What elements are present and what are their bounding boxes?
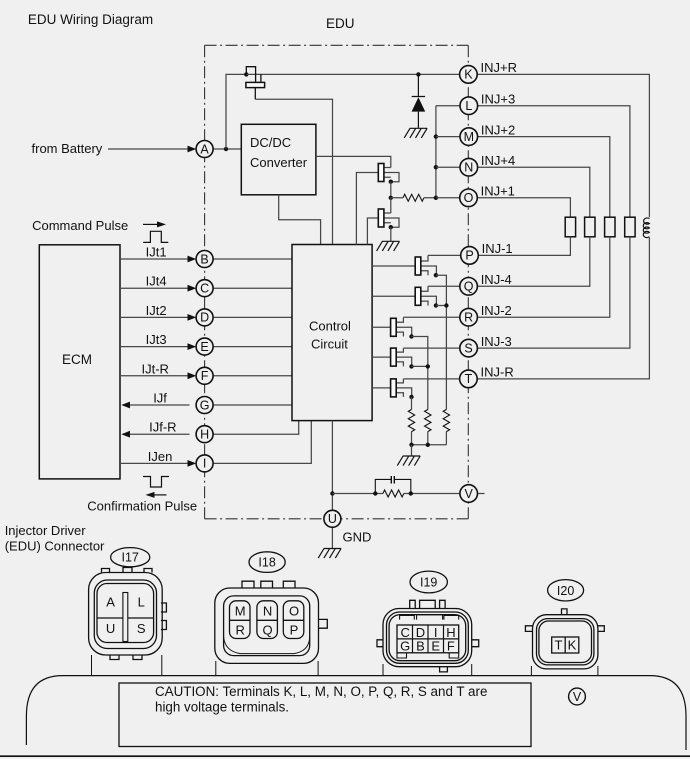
wire: inductor to T row [477, 237, 649, 379]
I18 legs [216, 661, 318, 676]
wire: junction up to fusible link [226, 74, 246, 149]
wire row D [120, 316, 292, 318]
I19 body outline [383, 609, 472, 667]
resistor (V feedback) [383, 490, 404, 497]
terminal T [460, 370, 478, 388]
I18 top tabs [242, 581, 327, 628]
I18 inner shell [224, 596, 310, 656]
wire: N row to injector 2 [478, 167, 590, 217]
terminal A [196, 141, 213, 158]
svg-text:INJ+4: INJ+4 [481, 153, 515, 168]
svg-text:R: R [236, 623, 245, 638]
svg-text:P: P [290, 623, 299, 638]
svg-text:EDU: EDU [326, 16, 355, 31]
svg-text:A: A [106, 595, 115, 610]
wire row C [120, 287, 292, 289]
svg-text:U: U [328, 512, 337, 526]
svg-text:K: K [464, 68, 473, 82]
transistor Q1 (high side) [356, 164, 399, 245]
svg-text:Control: Control [309, 319, 351, 334]
arrow row C [188, 285, 197, 292]
svg-text:GND: GND [343, 530, 372, 545]
svg-text:ECM: ECM [62, 352, 92, 367]
junction bus M [434, 134, 438, 138]
wire: DC/DC output right to transistor Q1 drain [316, 156, 391, 167]
svg-text:B: B [416, 639, 425, 654]
transistor Q3 (INJ-1 low side) [372, 255, 438, 277]
terminal K [460, 66, 478, 84]
I20 oval label [548, 580, 584, 601]
svg-text:H: H [200, 428, 209, 442]
I18 body outline [215, 588, 319, 663]
arrow row E [188, 343, 197, 350]
terminal N [460, 158, 478, 176]
resistor R3 (sense middle) [425, 410, 431, 432]
junction Q6 to middle line [426, 364, 430, 368]
I20 cavity [539, 621, 592, 663]
arrow into node A [188, 146, 197, 153]
svg-text:T: T [555, 638, 563, 653]
junction on U line [330, 491, 334, 495]
INJ labels [481, 60, 517, 380]
I20 top pin [562, 609, 568, 615]
arrow row F [188, 372, 197, 379]
junction Q4 to bus [444, 303, 448, 307]
svg-text:E: E [431, 639, 440, 654]
svg-text:T: T [465, 372, 473, 386]
I19 cavity [389, 615, 466, 661]
terminal H [196, 426, 213, 443]
wire: injector 1 to P row [478, 237, 570, 256]
wire: node A to DC/DC converter [213, 148, 241, 150]
I19 side and bottom tabs [377, 640, 479, 672]
terminal M [460, 128, 478, 146]
pulse glyph (command) [143, 231, 168, 242]
wire: Q row to Q4 drain [428, 285, 460, 287]
ground (U) [318, 549, 341, 559]
I17 terminal letters [106, 595, 146, 637]
terminal E [196, 338, 213, 355]
DC/DC converter U1 [241, 124, 316, 195]
svg-text:M: M [235, 604, 246, 619]
svg-text:(EDU) Connector: (EDU) Connector [5, 539, 105, 554]
svg-text:S: S [137, 621, 146, 636]
connector I17 [111, 548, 150, 567]
injector solenoid 2 [585, 217, 595, 237]
I19 top tabs [410, 600, 445, 608]
terminal V [460, 485, 478, 503]
I17 legs [92, 655, 162, 675]
I17 body outline [102, 568, 167, 660]
arrow row H (into ECM) [121, 431, 130, 438]
I19 inner shell [387, 612, 469, 663]
stub right of V [478, 493, 485, 495]
svg-text:K: K [568, 638, 577, 653]
terminal S [460, 339, 478, 357]
arrow row G (into ECM) [121, 402, 130, 409]
inductor L1 [643, 218, 649, 238]
connector I20 [548, 580, 584, 601]
svg-text:B: B [200, 252, 208, 266]
I19 bottom notches [397, 653, 459, 658]
junction at fusible link [244, 72, 248, 76]
junction bus O [434, 196, 438, 200]
svg-text:IJf-R: IJf-R [149, 420, 176, 435]
I18 cavity lip [224, 637, 310, 654]
wire: Q6 source joins middle resistor line [412, 365, 428, 367]
svg-text:IJt1: IJt1 [146, 245, 167, 260]
wire row B [120, 258, 292, 260]
terminal P [461, 247, 479, 265]
transistor Q6 (INJ-3 low side) [372, 348, 414, 368]
svg-text:INJ-1: INJ-1 [482, 241, 513, 256]
connector I19 [410, 571, 447, 593]
svg-text:IJt2: IJt2 [146, 303, 167, 318]
svg-text:IJf: IJf [153, 391, 167, 406]
terminal Q [460, 278, 478, 296]
svg-text:I: I [203, 457, 206, 471]
terminal L [460, 97, 478, 115]
terminal I [196, 455, 213, 472]
arrow row I [188, 460, 197, 467]
svg-text:F: F [447, 639, 455, 654]
junction on +B line at diode [416, 72, 420, 76]
transistor Q7 (INJ-R low side) [372, 379, 414, 399]
fusible link [246, 67, 265, 100]
svg-text:L: L [465, 99, 472, 113]
terminal circles left column [196, 141, 477, 528]
EDU case panel [26, 676, 686, 750]
svg-text:IJen: IJen [148, 449, 173, 464]
svg-text:A: A [200, 142, 209, 156]
injector solenoid 3 [605, 217, 615, 237]
wire: Q4 source joins sense line [436, 305, 447, 307]
svg-text:high voltage terminals.: high voltage terminals. [155, 700, 289, 715]
wire: junction to RC and terminal V [332, 493, 460, 495]
EDU boundary (dash-dot box) [205, 45, 469, 519]
terminal B [196, 251, 213, 268]
svg-text:IJt3: IJt3 [146, 332, 167, 347]
wire: Q5 source to middle sense resistor [412, 337, 428, 410]
svg-text:P: P [465, 249, 473, 263]
I19 top slots [400, 615, 459, 620]
junction sense common 2 [426, 443, 430, 447]
svg-text:Converter: Converter [250, 155, 308, 170]
wire: injector 2 to Q row [478, 237, 590, 286]
svg-text:N: N [464, 161, 473, 175]
I20 body outline [533, 615, 598, 669]
terminal U [324, 510, 341, 527]
svg-text:IJt-R: IJt-R [142, 361, 169, 376]
svg-text:V: V [465, 487, 474, 501]
wire: T row to Q7 drain [403, 378, 459, 380]
capacitor C1 (parallel) [375, 476, 411, 494]
I17 divider vertical bar [123, 593, 128, 642]
svg-text:I20: I20 [557, 584, 574, 598]
terminal D [196, 309, 213, 326]
svg-text:Confirmation Pulse: Confirmation Pulse [87, 499, 197, 514]
svg-text:INJ+1: INJ+1 [481, 184, 515, 199]
I20 terminal box [552, 637, 579, 653]
svg-text:Q: Q [464, 280, 474, 294]
svg-text:CAUTION: Terminals K, L, M, N,: CAUTION: Terminals K, L, M, N, O, P, Q, … [155, 684, 487, 699]
svg-text:from Battery: from Battery [32, 141, 103, 156]
ground (diode) [404, 128, 427, 138]
svg-text:G: G [200, 398, 210, 412]
svg-text:Injector Driver: Injector Driver [5, 523, 87, 538]
wire: injector 4 to S row [478, 237, 630, 348]
svg-text:S: S [464, 341, 472, 355]
Control Circuit box [292, 245, 372, 421]
svg-text:EDU Wiring Diagram: EDU Wiring Diagram [28, 12, 153, 27]
svg-text:I17: I17 [122, 551, 139, 565]
I20 terminal letters [555, 638, 577, 653]
junction Q1/Q2 node [389, 196, 393, 200]
resistor R4 (sense right) [443, 410, 449, 432]
wire: DC/DC bottom to control circuit top [279, 195, 321, 245]
I20 inner shell [537, 619, 594, 665]
svg-text:Command Pulse: Command Pulse [32, 218, 128, 233]
svg-text:L: L [138, 595, 145, 610]
svg-text:C: C [200, 282, 209, 296]
svg-text:V: V [573, 690, 582, 704]
wire: S row to Q6 drain [403, 347, 459, 349]
ground (sense) [397, 456, 420, 466]
svg-text:Circuit: Circuit [311, 337, 348, 352]
arrow confirmation pulse [153, 494, 167, 496]
arrow row D [188, 314, 197, 321]
svg-text:INJ-2: INJ-2 [481, 303, 512, 318]
svg-text:I19: I19 [420, 576, 437, 590]
terminal C [196, 280, 213, 297]
I19 oval label [410, 571, 447, 593]
wire: +B line to terminal K [246, 73, 459, 75]
I19 terminal letters [400, 625, 455, 654]
svg-text:INJ-R: INJ-R [481, 365, 514, 380]
transistor Q2 (discharge) [367, 198, 399, 245]
svg-text:E: E [200, 340, 208, 354]
wire row E [120, 346, 292, 348]
wire: common node to ground [411, 445, 413, 456]
junction node A output [224, 147, 228, 151]
terminal V (case) [569, 688, 586, 705]
I17 oval label [111, 548, 150, 567]
I20 side tabs [525, 626, 604, 632]
transistor Q4 (INJ-4 low side) [372, 286, 438, 307]
wire row G [130, 404, 292, 406]
I19 terminal grid [397, 625, 459, 653]
pulse glyph (confirmation) [143, 477, 169, 488]
svg-text:INJ-4: INJ-4 [481, 272, 512, 287]
wire: node to resistor R1 [391, 197, 436, 199]
terminal R [460, 308, 478, 326]
svg-text:Q: Q [263, 623, 273, 638]
svg-text:F: F [201, 369, 209, 383]
svg-text:O: O [289, 604, 299, 619]
wire: Q3 source to sense bus [436, 275, 447, 409]
wire row I [120, 421, 311, 463]
wire: Q7 source to left sense resistor [411, 397, 413, 410]
svg-text:I18: I18 [258, 556, 275, 570]
svg-text:INJ+R: INJ+R [481, 60, 517, 75]
wire: Q1 source down to resistor node [390, 182, 392, 198]
junction dots RC [373, 491, 377, 495]
wire L to bus [436, 105, 460, 107]
connector I18 [249, 552, 285, 573]
junction sense common 1 [409, 443, 413, 447]
transistor Q5 (INJ-2 low side) [372, 317, 414, 338]
wire row F [120, 375, 292, 377]
wire: O row to injector 1 [477, 198, 570, 217]
wire: Q2 source to ground [390, 227, 392, 241]
I18 terminal letters [235, 604, 299, 638]
arrow command pulse [143, 223, 159, 225]
I17 inner shell [94, 580, 156, 649]
wire: control bottom to terminal U [331, 421, 333, 511]
injector solenoid 1 [565, 217, 575, 237]
arrow row B [188, 256, 197, 263]
I19 legs [383, 664, 472, 676]
diode D1 (clamp to ground) [412, 74, 425, 128]
ECM box [39, 245, 120, 479]
wire: sense resistors common node [412, 432, 447, 445]
ground (Q2) [377, 241, 400, 251]
bottom edge line [0, 755, 690, 757]
wire: L row to injector 4 [478, 106, 630, 218]
wire M to bus [436, 136, 460, 138]
wire row H [130, 421, 299, 434]
wire: injector 3 to R row [478, 237, 610, 317]
I17 divider horizontal [97, 617, 154, 619]
resistor R1 (to +B bus) [403, 194, 424, 201]
wire O row [436, 197, 460, 199]
wire: R row to Q5 drain [403, 316, 459, 318]
svg-text:D: D [200, 311, 209, 325]
svg-text:INJ+3: INJ+3 [481, 92, 515, 107]
junction bus N [434, 165, 438, 169]
resistor R2 (sense left) [408, 410, 414, 432]
svg-text:G: G [400, 639, 410, 654]
svg-text:INJ-3: INJ-3 [481, 334, 512, 349]
I18 terminal cells [230, 601, 251, 639]
svg-text:O: O [464, 191, 474, 205]
svg-text:N: N [263, 604, 272, 619]
I20 legs [531, 666, 598, 676]
terminal F [196, 367, 213, 384]
wire: M row to injector 3 [478, 137, 610, 218]
svg-text:DC/DC: DC/DC [250, 135, 291, 150]
svg-text:R: R [464, 311, 473, 325]
wire: terminal U to ground [331, 527, 333, 548]
injector solenoid 4 [625, 217, 635, 237]
svg-text:INJ+2: INJ+2 [481, 122, 515, 137]
svg-text:IJt4: IJt4 [146, 274, 167, 289]
+B bus vertical (L,M,N,O) [435, 106, 437, 198]
terminal G [196, 397, 213, 414]
wire: fusible link output to control circuit top [255, 99, 332, 244]
wire N to bus [436, 166, 460, 168]
wire: from Battery to node A [108, 148, 190, 150]
I17 cavity [97, 584, 154, 643]
svg-text:M: M [464, 130, 474, 144]
I18 oval label [249, 552, 285, 573]
terminal circles right column [460, 66, 479, 388]
terminal O [460, 189, 478, 207]
wire: P row to Q3 drain [428, 254, 461, 256]
svg-text:U: U [106, 621, 115, 636]
caution box [119, 683, 531, 747]
wire: K row to inductor [477, 74, 649, 217]
